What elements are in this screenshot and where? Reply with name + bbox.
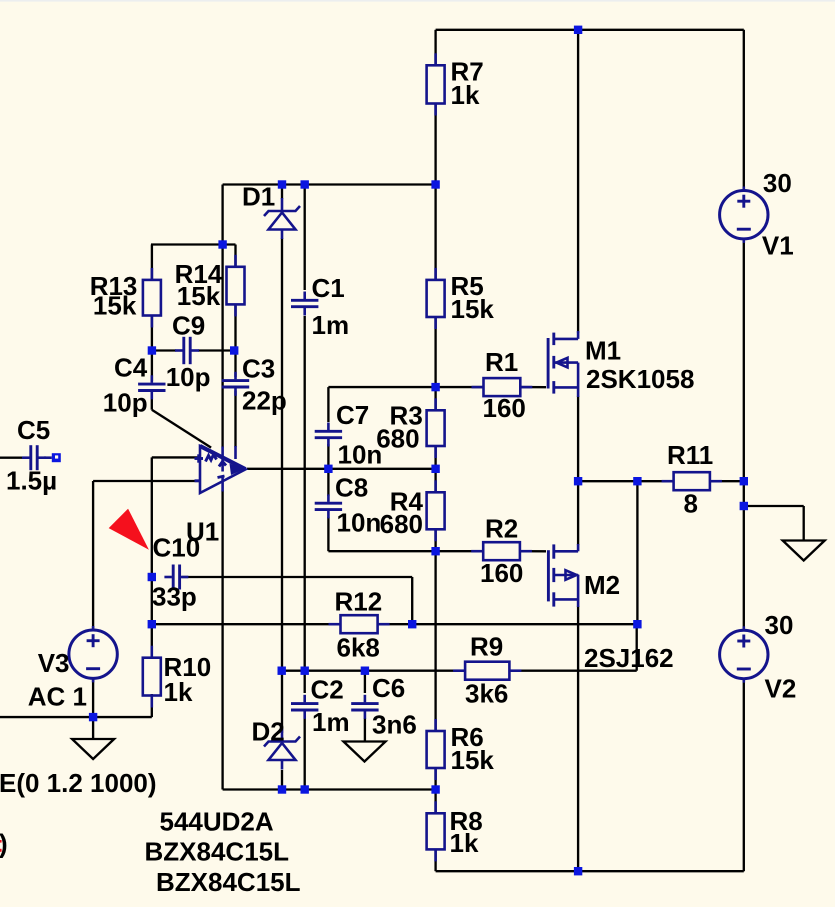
voltage source V3 xyxy=(28,626,118,712)
wire diagonal C4 to opamp inverting input xyxy=(152,410,211,448)
svg-text:33p: 33p xyxy=(152,582,197,612)
svg-text:10n: 10n xyxy=(338,440,383,470)
svg-text:8: 8 xyxy=(684,489,698,519)
wire C8 top lead xyxy=(327,469,329,496)
wire V2 to bottom rail xyxy=(743,679,745,871)
svg-text:2SJ162: 2SJ162 xyxy=(584,643,674,673)
svg-text:U1: U1 xyxy=(186,517,219,547)
wire main column R6-R8 junction xyxy=(434,768,436,872)
resistor R3 xyxy=(376,398,444,458)
window top edge strip xyxy=(0,0,835,2)
wire output ground stub xyxy=(744,506,804,541)
junction output row / main column xyxy=(431,465,439,473)
capacitor C6 xyxy=(351,673,417,740)
transistor M2 pmos 2SJ162 xyxy=(548,544,673,673)
wire C4 top lead xyxy=(151,351,153,382)
voltage source V2 xyxy=(720,610,797,704)
wire x637 column xyxy=(636,481,638,624)
junction R12 row / x637 xyxy=(633,620,641,628)
svg-text:M1: M1 xyxy=(585,336,621,366)
wire top rail xyxy=(436,29,744,31)
svg-text:C3: C3 xyxy=(242,354,275,384)
transistor M1 nmos 2SK1058 xyxy=(548,331,694,397)
svg-text:15k: 15k xyxy=(177,281,221,311)
wire opamp lower input row from V3 xyxy=(93,480,200,482)
svg-text:C5: C5 xyxy=(17,415,50,445)
svg-text:R1: R1 xyxy=(485,347,518,377)
svg-text:160: 160 xyxy=(480,558,523,588)
wire main column long segment R2row to R6 xyxy=(434,551,436,731)
svg-text:1m: 1m xyxy=(312,310,350,340)
junction R9 row / D column xyxy=(278,667,286,675)
svg-text:680: 680 xyxy=(376,424,419,454)
resistor R7 xyxy=(427,53,484,115)
svg-text:C7: C7 xyxy=(336,400,369,430)
wire main column R5 segment xyxy=(434,185,436,388)
wire M2 top to R11 row xyxy=(577,481,579,545)
wire C5 left xyxy=(0,457,27,459)
wire D1 column xyxy=(281,185,283,671)
wire V3 bottom to ground node row xyxy=(0,678,152,739)
ground below V3 xyxy=(72,739,114,759)
junction R13R14 row / x222 xyxy=(218,240,226,248)
junction lower rail / C2 xyxy=(301,785,309,793)
wire x222 column below opamp xyxy=(221,491,223,790)
junction R12 row / x152 xyxy=(148,620,156,628)
junction lower rail / D2 xyxy=(278,785,286,793)
resistor R9 xyxy=(453,632,521,709)
wire main column R4 segment xyxy=(434,469,436,551)
wire C5 lead to port xyxy=(44,456,52,459)
resistor R2 xyxy=(471,514,532,589)
svg-text:AC 1: AC 1 xyxy=(28,682,87,712)
svg-text:15k: 15k xyxy=(93,291,137,321)
wire M1 drain column xyxy=(577,30,579,333)
svg-text:10p: 10p xyxy=(166,362,211,392)
red probe arrow marker xyxy=(109,509,149,550)
junction H2 / main column xyxy=(431,180,439,188)
svg-text:C6: C6 xyxy=(372,673,405,703)
svg-text:2SK1058: 2SK1058 xyxy=(586,364,694,394)
resistor R14 xyxy=(175,255,245,317)
capacitor C4 xyxy=(103,353,166,418)
svg-text:680: 680 xyxy=(380,509,423,539)
wire D2 column xyxy=(281,671,283,790)
resistor R8 xyxy=(427,801,483,861)
svg-text:1k: 1k xyxy=(450,828,479,858)
wire M1 source to R11 row xyxy=(577,396,579,481)
svg-text:30: 30 xyxy=(763,168,792,198)
capacitor C9 xyxy=(166,311,211,393)
wire M2 bottom column to bottom rail xyxy=(577,606,579,871)
wire right rail V1 top xyxy=(743,30,745,190)
wire left column x222 down to opamp V+ xyxy=(221,185,223,448)
wire C2 column xyxy=(304,671,306,790)
junction V3 ground node xyxy=(89,713,97,721)
svg-text:V3: V3 xyxy=(38,648,70,678)
junction C10 / x152 xyxy=(148,573,156,581)
svg-text:M2: M2 xyxy=(584,570,620,600)
wire C4 below plate xyxy=(151,394,153,410)
wire R1 row xyxy=(436,386,546,388)
junction C9 left / R13 / C4 xyxy=(148,346,156,354)
junction R9 row / C2 xyxy=(301,667,309,675)
svg-text:C9: C9 xyxy=(172,311,205,341)
svg-text:1k: 1k xyxy=(451,80,480,110)
junction R12 row / C10 corner xyxy=(408,620,416,628)
wire R12 right column down to R9 row xyxy=(636,624,638,671)
junction lower rail / main column xyxy=(431,785,439,793)
resistor R11 xyxy=(662,440,722,519)
capacitor C8 xyxy=(315,473,382,538)
wire V3 top column xyxy=(92,481,94,631)
junction top rail / M1 drain xyxy=(574,26,582,34)
svg-text:V1: V1 xyxy=(762,231,794,261)
junction R9 row / C6 xyxy=(361,667,369,675)
resistor R13 xyxy=(90,268,161,328)
svg-text:3n6: 3n6 xyxy=(372,710,417,740)
svg-text:15k: 15k xyxy=(451,294,495,324)
wire R9 row xyxy=(282,670,637,672)
resistor R5 xyxy=(427,268,495,329)
wire R13 vertical xyxy=(151,245,153,351)
red text remnants at left edge xyxy=(0,840,2,843)
svg-text:C2: C2 xyxy=(311,675,344,705)
wire opamp noninverting input row xyxy=(152,456,200,458)
wire C8 bottom corner to R2 row xyxy=(328,517,435,551)
svg-text:22p: 22p xyxy=(242,386,287,416)
junction R11 row / x637 xyxy=(633,477,641,485)
wire C3 vertical xyxy=(234,351,236,448)
svg-text:BZX84C15L: BZX84C15L xyxy=(156,867,301,897)
junction R1 row / main column xyxy=(431,383,439,391)
wire main column R7 to H2 node xyxy=(434,30,436,185)
junction bottom rail / M2 column xyxy=(574,867,582,875)
voltage source V1 xyxy=(720,168,794,261)
wire C9 row leads xyxy=(152,349,236,351)
svg-text:C4: C4 xyxy=(114,353,148,383)
svg-text:BZX84C15L: BZX84C15L xyxy=(145,837,290,867)
junction R2 row / main column xyxy=(431,547,439,555)
svg-text:1k: 1k xyxy=(164,677,193,707)
wire x152 column opamp to C10 to R12 to R10 xyxy=(151,457,153,717)
junction output row / C7 C8 xyxy=(324,465,332,473)
svg-text:30: 30 xyxy=(765,610,794,640)
svg-text:15k: 15k xyxy=(451,745,495,775)
svg-text:544UD2A: 544UD2A xyxy=(160,807,274,837)
wire C1 column xyxy=(304,185,306,671)
junction R11 row / M1 source xyxy=(574,477,582,485)
wire C6 column xyxy=(364,671,366,741)
wire C7 branch corner xyxy=(328,387,435,422)
op-amp U1 544UD2A xyxy=(186,446,246,547)
capacitor C3 xyxy=(222,354,287,416)
svg-text:6k8: 6k8 xyxy=(337,633,380,663)
svg-text:R2: R2 xyxy=(485,514,518,544)
svg-text:10p: 10p xyxy=(103,388,148,418)
wire C7 to output junction xyxy=(327,444,329,469)
junction C9 right / R14 / C3 xyxy=(230,346,238,354)
ground at output right xyxy=(783,541,825,561)
wire R2 row xyxy=(436,550,546,552)
capacitor C10 xyxy=(152,533,200,612)
junction R11 row / right rail xyxy=(740,477,748,485)
svg-text:D2: D2 xyxy=(252,717,285,747)
capacitor C1 xyxy=(291,273,349,340)
resistor R6 xyxy=(427,719,495,780)
wire opamp output row xyxy=(247,468,436,470)
wire H2 upper-left row xyxy=(223,183,436,185)
junction right rail / ground stub xyxy=(740,502,748,510)
svg-text:160: 160 xyxy=(483,393,526,423)
wire bottom rail xyxy=(436,870,744,872)
svg-text:V2: V2 xyxy=(765,674,797,704)
svg-text:R9: R9 xyxy=(470,632,503,662)
capacitor C2 xyxy=(291,675,350,738)
capacitor C7 xyxy=(315,400,383,470)
wire R11 row xyxy=(578,480,744,482)
svg-text:D1: D1 xyxy=(242,182,275,212)
junction H2 / C1 xyxy=(301,180,309,188)
svg-text:R12: R12 xyxy=(335,587,383,617)
resistor R10 xyxy=(143,646,211,708)
wire R12 row xyxy=(152,623,638,625)
zener diode D1 xyxy=(242,182,300,240)
wire lower rail D2 C2 xyxy=(223,788,436,790)
port terminal at C5 xyxy=(52,453,61,462)
svg-text:10n: 10n xyxy=(337,508,382,538)
svg-text:1.5µ: 1.5µ xyxy=(6,466,57,496)
svg-text:1m: 1m xyxy=(312,707,350,737)
zener diode D2 xyxy=(252,717,301,770)
resistor R4 xyxy=(380,480,445,541)
wire R13 R14 top row xyxy=(151,243,236,245)
svg-text:3k6: 3k6 xyxy=(465,679,508,709)
resistor R12 xyxy=(329,587,390,663)
wire R14 vertical xyxy=(234,245,236,351)
svg-text:R11: R11 xyxy=(667,440,713,470)
ground below C6 xyxy=(344,742,386,762)
junction H2 / D1 xyxy=(278,180,286,188)
svg-text:C1: C1 xyxy=(312,273,345,303)
svg-text:): ) xyxy=(0,829,8,859)
wire right rail to V2 xyxy=(743,481,745,630)
wire main column R3 segment xyxy=(434,387,436,469)
svg-text:C8: C8 xyxy=(335,473,368,503)
resistor R1 xyxy=(472,347,533,423)
svg-text:E(0 1.2 1000): E(0 1.2 1000) xyxy=(0,768,157,798)
wire right rail V1 to R11 xyxy=(743,240,745,482)
wire C10 row to corner xyxy=(182,577,412,624)
capacitor C5 xyxy=(6,415,57,496)
